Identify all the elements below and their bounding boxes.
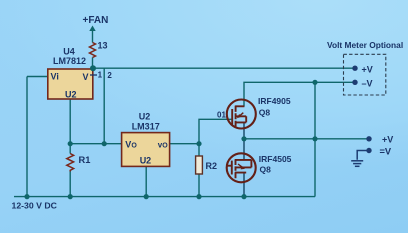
wire: LM317 bottom pin to rail <box>145 166 147 196</box>
svg-text:+FAN: +FAN <box>83 15 109 26</box>
svg-text:01: 01 <box>217 110 226 119</box>
wire: bottom rail 12-30V <box>14 196 315 198</box>
svg-text:12-30 V DC: 12-30 V DC <box>12 200 58 210</box>
wire: Q1 gate riser and gate lead <box>199 119 232 143</box>
svg-text:+V: +V <box>382 135 393 145</box>
svg-text:U2: U2 <box>140 156 152 166</box>
resistor R1 (zigzag) <box>67 154 74 172</box>
svg-text:1: 1 <box>98 71 103 80</box>
transistor Q1 IRF4905 (P-MOSFET in circle) <box>227 100 256 129</box>
svg-text:Vi: Vi <box>51 72 59 82</box>
resistor 13 (zigzag) <box>90 43 96 58</box>
svg-text:O: O <box>162 143 168 150</box>
svg-text:=V: =V <box>380 146 392 156</box>
terminal +V (voltmeter) <box>352 66 357 71</box>
wire: R2 leads <box>198 144 200 197</box>
junction dots (teal) <box>24 65 317 199</box>
wire: top horizontal to +V terminal <box>93 67 355 69</box>
wire: left vertical from Vi to rail <box>26 77 28 197</box>
voltmeter dashed box <box>344 54 386 95</box>
svg-text:Q8: Q8 <box>260 165 272 175</box>
svg-text:IRF4905: IRF4905 <box>258 96 291 106</box>
wire: right outer vertical <box>314 82 316 196</box>
svg-text:Volt Meter Optional: Volt Meter Optional <box>327 40 403 50</box>
svg-text:U2: U2 <box>65 90 77 100</box>
svg-text:O: O <box>131 142 137 149</box>
wire: +V output horizontal <box>244 138 369 140</box>
svg-text:V: V <box>83 72 89 82</box>
svg-text:R1: R1 <box>79 155 91 165</box>
wire: Q1 bottom lead <box>243 122 245 138</box>
regulator U4 LM7812 box <box>48 69 93 99</box>
svg-text:13: 13 <box>98 40 108 50</box>
terminal +V output <box>366 136 371 141</box>
regulator U2 LM317 box <box>122 133 170 167</box>
wire: Vi input horizontal <box>27 76 48 78</box>
terminal =V output <box>366 148 371 153</box>
svg-text:LM7812: LM7812 <box>53 56 86 66</box>
svg-text:–V: –V <box>362 79 373 89</box>
svg-text:+V: +V <box>362 64 373 74</box>
wire: Vo row into LM317 <box>70 143 121 145</box>
wire: +FAN arrow and lead <box>92 30 94 69</box>
wire: pin2 vertical <box>103 68 105 144</box>
transistor Q8 IRF4505 (N-MOSFET in circle) <box>227 153 256 182</box>
svg-text:LM317: LM317 <box>132 122 160 132</box>
svg-text:U4: U4 <box>63 47 75 57</box>
wire: vo output of LM317 <box>170 143 199 145</box>
resistor R2 (box) <box>196 156 203 174</box>
wire: Q8 top lead <box>243 139 245 160</box>
wire: R1 leads <box>69 144 71 197</box>
wire: -V horizontal with corner down to Q1 top <box>244 82 355 106</box>
ground symbol <box>351 151 369 167</box>
svg-text:U2: U2 <box>139 112 151 122</box>
svg-text:2: 2 <box>107 71 112 80</box>
wire: U4 bottom pin down <box>69 99 71 144</box>
svg-text:Q8: Q8 <box>259 108 271 118</box>
wire: Q8 bottom lead to rail <box>243 173 245 197</box>
svg-text:IRF4505: IRF4505 <box>259 154 292 164</box>
terminal -V (voltmeter) <box>352 80 357 85</box>
svg-text:R2: R2 <box>206 161 218 171</box>
